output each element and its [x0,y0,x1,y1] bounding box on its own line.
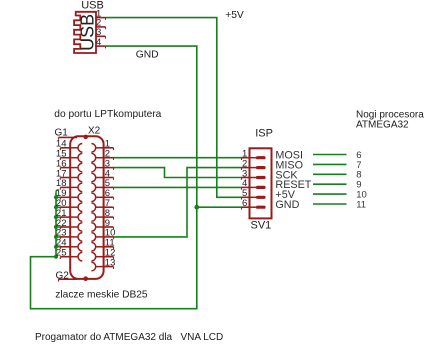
connector SV1 body [250,148,272,218]
X2 pin 10 [91,228,115,242]
wire GND: USB pin4 down right side, bottom rail, up to X2 ground bus [31,46,197,309]
X2 pin 22 [56,218,82,232]
SV1 pin 6 [242,198,265,210]
svg-text:do portu LPTkomputera: do portu LPTkomputera [54,109,161,120]
junction bus corner pin 25 [54,255,58,259]
svg-text:ISP: ISP [255,128,273,140]
pin G1 [59,137,78,139]
svg-text:zlacze meskie DB25: zlacze meskie DB25 [55,289,148,300]
svg-text:Progamator do ATMEGA32 dla V: Progamator do ATMEGA32 dla VNA LCD [35,332,223,343]
svg-text:USB: USB [77,14,97,51]
X2 pin 20 [56,198,82,212]
svg-text:GND: GND [136,50,159,61]
junction X2 top [83,135,88,140]
X2 pin 6 [91,188,113,202]
X2 pin 23 [56,228,82,242]
X2 pin 17 [56,168,82,182]
svg-text:+5V: +5V [225,10,244,21]
junction bus pin 21 [54,215,58,219]
X2 pin 12 [91,248,115,262]
X2 pin 2 [91,149,113,163]
SV1 pin 4 [242,178,265,190]
wire bus nub to X2 pin 23 [56,236,63,238]
svg-text:GND: GND [275,199,299,211]
X2 pin 8 [91,208,113,222]
wire stub ATMEGA32 pin 9 [313,183,347,185]
junction bus pin 19 [54,195,58,199]
wire RESET: X2 pin5 to ISP pin4 [114,186,242,188]
svg-text:SV1: SV1 [251,220,272,232]
X2 pin 19 [56,188,82,202]
pin G2 [59,279,78,281]
USB pin 4 [96,37,106,49]
X2 pin 4 [91,168,113,182]
SV1 pin 2 [242,158,265,170]
X2 pin 11 [91,238,114,252]
svg-text:25: 25 [56,248,67,259]
wire stub ATMEGA32 pin 6 [313,154,347,156]
wire SCK: X2 pin3 to ISP pin3 with jog [114,168,242,178]
X2 pin 3 [91,158,113,172]
junction bus pin 22 [54,225,58,229]
X2 pin 13 [91,257,115,271]
svg-text:4: 4 [96,37,101,48]
svg-text:6: 6 [242,198,247,209]
junction bus pin 23 [54,235,58,239]
X2 pin 9 [91,218,113,232]
X2 pin 16 [56,158,82,172]
svg-text:11: 11 [356,199,366,210]
junction bus pin 24 [54,245,58,249]
junction GND at ISP pin6 [194,205,199,210]
wire bus nub to X2 pin 21 [56,216,63,218]
X2 pin 1 [91,139,113,153]
svg-text:ATMEGA32: ATMEGA32 [356,120,409,131]
wire bus nub to X2 pin 24 [56,246,63,248]
USB pin 3 [96,27,106,39]
wire stub ATMEGA32 pin 8 [313,173,347,175]
SV1 pin 1 [242,149,265,161]
X2 pin 24 [56,238,82,252]
wire GND branch to ISP pin6 [197,206,242,208]
wire bus nub to X2 pin 19 [56,196,63,198]
SV1 pin 5 [242,188,265,200]
connector X2 body [70,136,103,279]
wire MOSI: X2 pin2 to ISP pin1 [114,157,242,159]
junction X2 bottom [83,276,88,281]
wire GND hook at bus top [56,190,58,192]
svg-text:X2: X2 [88,126,101,137]
svg-text:13: 13 [105,257,116,268]
X2 pin 25 [56,248,82,262]
wire stub ATMEGA32 pin 10 [313,193,347,195]
X2 pin 7 [91,198,113,212]
wire +5V: USB pin1 to ISP pin5 [106,18,242,198]
wire stub ATMEGA32 pin 11 [313,203,347,205]
wire bus nub to X2 pin 20 [56,206,63,208]
X2 pin 14 [56,139,82,153]
junction bus pin 20 [54,205,58,209]
connector USB [74,12,97,53]
X2 pin 18 [56,178,82,192]
X2 pin 5 [91,178,113,192]
SV1 pin 3 [242,168,265,180]
wire bus nub to X2 pin 22 [56,226,63,228]
wire stub ATMEGA32 pin 7 [313,163,347,165]
X2 pin 21 [56,208,82,222]
USB pin 1 [96,8,106,20]
wire MISO: X2 pin10 up to ISP pin2 [114,168,242,237]
USB pin 2 [96,18,106,30]
X2 pin 15 [56,149,82,163]
